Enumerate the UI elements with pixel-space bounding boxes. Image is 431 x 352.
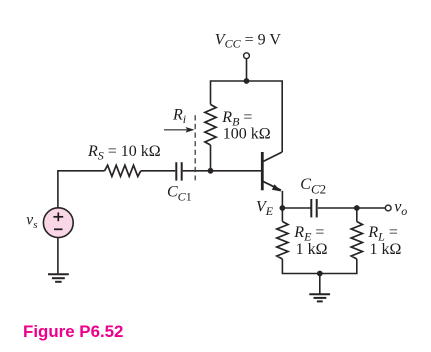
node dot VCC rail bbox=[244, 78, 250, 84]
source vs plus/minus signs bbox=[53, 212, 63, 229]
svg-text:1 kΩ: 1 kΩ bbox=[296, 241, 328, 258]
node dot output bbox=[354, 205, 360, 211]
wire source left bbox=[58, 171, 105, 208]
svg-text:1 kΩ: 1 kΩ bbox=[370, 241, 402, 258]
wire RB bottom lead bbox=[210, 145, 212, 171]
terminal vo bbox=[385, 205, 391, 211]
ground (source) bbox=[48, 274, 69, 282]
svg-text:100 kΩ: 100 kΩ bbox=[223, 126, 271, 143]
wire emitter to VE bbox=[281, 191, 283, 208]
wire VCC stem bbox=[246, 59, 248, 81]
node dot base bbox=[208, 168, 214, 174]
dashed line Ri bbox=[194, 115, 196, 180]
svg-text:Figure P6.52: Figure P6.52 bbox=[23, 322, 123, 341]
wire ground stem right bbox=[319, 274, 321, 294]
transistor emitter arrowhead bbox=[272, 184, 281, 191]
resistor RB bbox=[205, 105, 216, 146]
wire cap to base bbox=[183, 170, 262, 172]
resistor RS bbox=[105, 165, 141, 176]
node dot VE bbox=[280, 205, 286, 211]
ground (bottom) bbox=[309, 294, 330, 301]
arrow Ri bbox=[164, 129, 187, 131]
capacitor CC2 bbox=[311, 199, 316, 217]
wire RE top lead bbox=[281, 208, 283, 222]
terminal VCC bbox=[244, 53, 250, 59]
wire VE to CC2 bbox=[282, 207, 311, 209]
wire top rail bbox=[211, 81, 283, 152]
wire RL top lead bbox=[356, 208, 358, 222]
wire base line bbox=[141, 170, 176, 172]
resistor RE bbox=[277, 222, 288, 260]
resistor RL bbox=[351, 222, 362, 260]
wire bottom rail bbox=[282, 259, 356, 274]
capacitor CC1 bbox=[176, 162, 181, 180]
wire CC2 to vo bbox=[318, 207, 385, 209]
node dot bottom ground bbox=[317, 271, 323, 277]
wire source to ground bbox=[57, 238, 59, 274]
transistor Q1 bbox=[262, 152, 282, 190]
source vs bbox=[43, 208, 73, 238]
